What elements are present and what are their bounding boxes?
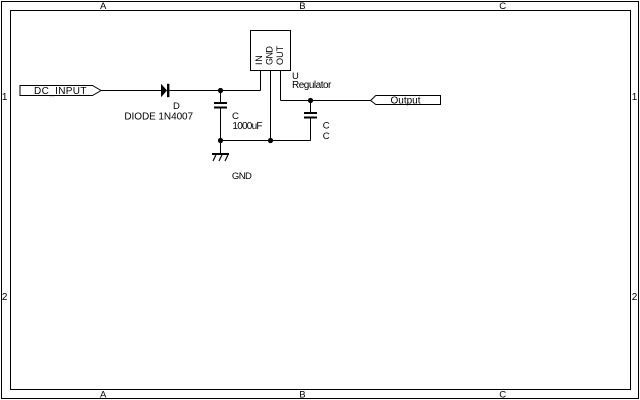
- capacitor C1: [214, 102, 227, 109]
- svg-text:1000uF: 1000uF: [232, 121, 262, 132]
- wire output node down to C2: [310, 101, 312, 113]
- wire output node to port: [311, 100, 371, 102]
- svg-text:B: B: [299, 390, 305, 400]
- wire diode to regulator IN pin: [169, 90, 260, 92]
- svg-text:1: 1: [632, 92, 638, 103]
- wire junction down to C1: [220, 91, 222, 103]
- wire C1 down to ground rail: [220, 109, 222, 141]
- diode D: [161, 84, 169, 97]
- svg-text:Regulator: Regulator: [292, 80, 332, 91]
- svg-text:DC_INPUT: DC_INPUT: [34, 86, 87, 97]
- wire input port to diode: [101, 90, 161, 92]
- ground rail wire: [221, 140, 311, 142]
- wire OUT pin to output node: [281, 100, 311, 102]
- svg-text:GND: GND: [264, 46, 274, 65]
- svg-text:2: 2: [2, 292, 8, 303]
- svg-text:DIODE 1N4007: DIODE 1N4007: [124, 111, 193, 122]
- node output junction: [308, 98, 313, 103]
- port DC_INPUT: [20, 86, 101, 97]
- capacitor C2: [304, 112, 317, 119]
- svg-text:1: 1: [2, 92, 8, 103]
- node input junction: [218, 88, 223, 93]
- wire rail to ground symbol: [220, 141, 222, 154]
- svg-text:C: C: [499, 390, 506, 400]
- svg-text:Output: Output: [391, 96, 421, 107]
- node ground rail at GND pin: [268, 138, 273, 143]
- regulator U: [251, 31, 291, 71]
- svg-text:A: A: [100, 390, 107, 400]
- pin OUT wire: [280, 70, 282, 101]
- svg-text:OUT: OUT: [275, 45, 285, 65]
- svg-text:A: A: [100, 1, 107, 12]
- port Output: [371, 96, 441, 107]
- svg-text:IN: IN: [254, 55, 264, 65]
- svg-text:B: B: [299, 1, 305, 12]
- ground: [212, 154, 229, 161]
- wire C2 down to ground rail: [310, 119, 312, 141]
- svg-text:C: C: [499, 1, 506, 12]
- svg-text:C: C: [323, 120, 330, 131]
- svg-text:C: C: [323, 131, 330, 142]
- svg-text:GND: GND: [232, 171, 252, 182]
- node ground rail at C1: [218, 138, 223, 143]
- pin GND wire: [270, 70, 272, 141]
- svg-text:2: 2: [632, 292, 638, 303]
- pin IN wire: [260, 70, 262, 91]
